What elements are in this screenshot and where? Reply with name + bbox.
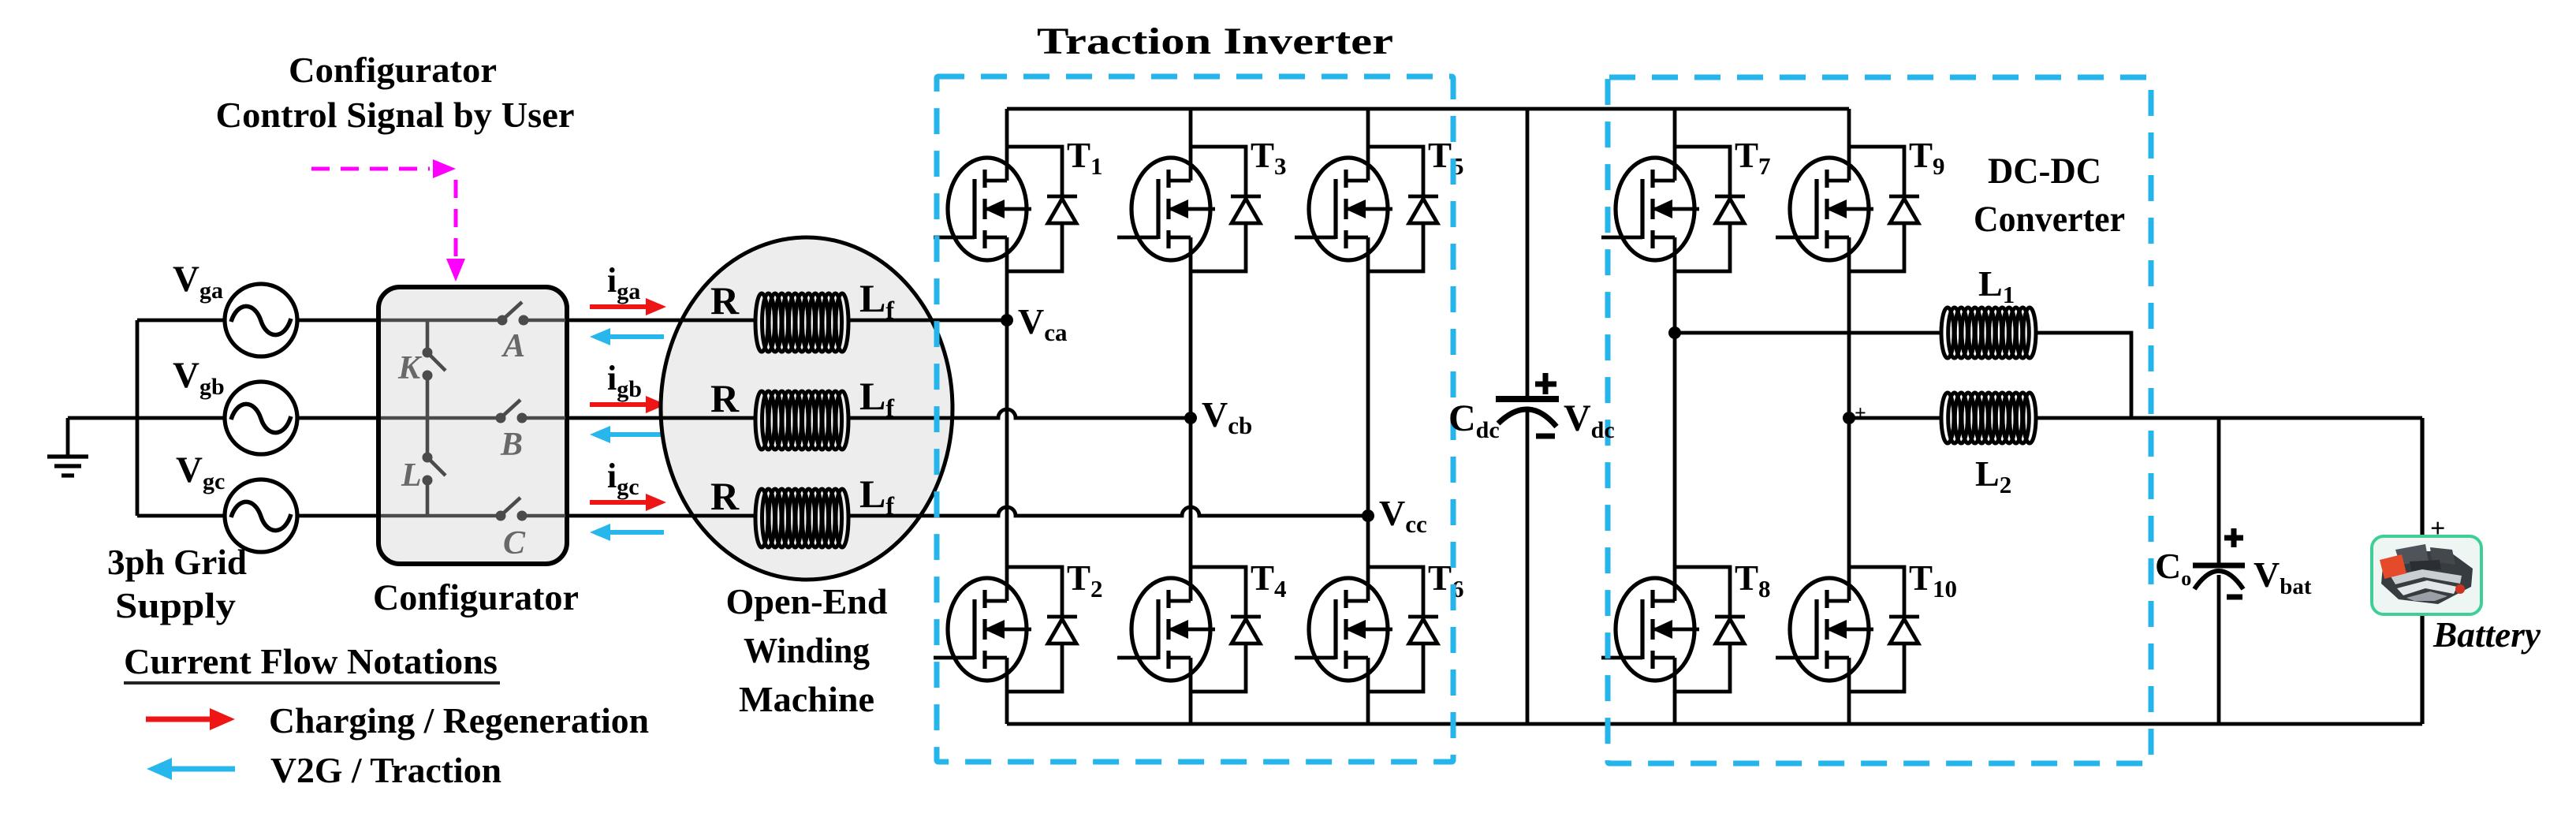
svg-text:igc: igc [607, 457, 639, 500]
svg-text:Current Flow Notations: Current Flow Notations [124, 641, 498, 681]
svg-text:T8: T8 [1735, 558, 1771, 602]
svg-text:Configurator: Configurator [289, 50, 497, 90]
svg-text:Charging / Regeneration: Charging / Regeneration [269, 700, 649, 741]
svg-text:T1: T1 [1067, 136, 1103, 180]
svg-text:T6: T6 [1428, 558, 1464, 602]
svg-text:R: R [710, 278, 740, 323]
svg-text:Vbat: Vbat [2254, 554, 2312, 599]
svg-text:Vga: Vga [173, 259, 223, 304]
svg-text:B: B [500, 427, 523, 463]
svg-text:Battery: Battery [2432, 614, 2541, 655]
svg-text:Machine: Machine [739, 679, 874, 719]
svg-text:Configurator: Configurator [373, 577, 579, 618]
svg-text:Traction Inverter: Traction Inverter [1037, 21, 1393, 62]
svg-text:T4: T4 [1251, 558, 1287, 602]
svg-text:igb: igb [607, 359, 642, 402]
svg-text:T3: T3 [1251, 136, 1287, 180]
svg-text:+: + [1855, 401, 1866, 424]
svg-text:Cdc: Cdc [1448, 397, 1500, 443]
svg-text:Vca: Vca [1018, 301, 1068, 346]
svg-text:T10: T10 [1909, 558, 1957, 602]
svg-text:Vgc: Vgc [176, 450, 225, 494]
svg-text:L1: L1 [1978, 263, 2015, 308]
svg-text:L2: L2 [1975, 453, 2011, 498]
svg-text:Vcb: Vcb [1202, 394, 1252, 439]
svg-text:Vcc: Vcc [1379, 493, 1427, 538]
svg-text:A: A [501, 328, 525, 364]
svg-text:DC-DC: DC-DC [1988, 151, 2101, 192]
svg-text:V2G / Traction: V2G / Traction [270, 750, 501, 790]
svg-text:3ph Grid: 3ph Grid [107, 542, 247, 582]
svg-text:R: R [710, 376, 740, 420]
svg-text:T7: T7 [1735, 136, 1771, 180]
svg-text:Control Signal by User: Control Signal by User [216, 95, 575, 135]
svg-text:iga: iga [607, 261, 640, 304]
svg-text:K: K [397, 350, 423, 386]
svg-text:C: C [503, 525, 526, 561]
svg-text:Vdc: Vdc [1564, 397, 1615, 443]
svg-text:T2: T2 [1067, 558, 1103, 602]
svg-text:T9: T9 [1909, 136, 1945, 180]
svg-text:L: L [401, 457, 422, 494]
svg-text:Winding: Winding [744, 630, 870, 670]
svg-text:R: R [710, 474, 740, 518]
svg-text:Converter: Converter [1974, 199, 2125, 240]
svg-text:Vgb: Vgb [173, 355, 225, 400]
svg-text:Supply: Supply [115, 585, 236, 625]
svg-text:T5: T5 [1428, 136, 1464, 180]
svg-text:Open-End: Open-End [726, 581, 888, 621]
svg-text:Co: Co [2155, 546, 2191, 590]
